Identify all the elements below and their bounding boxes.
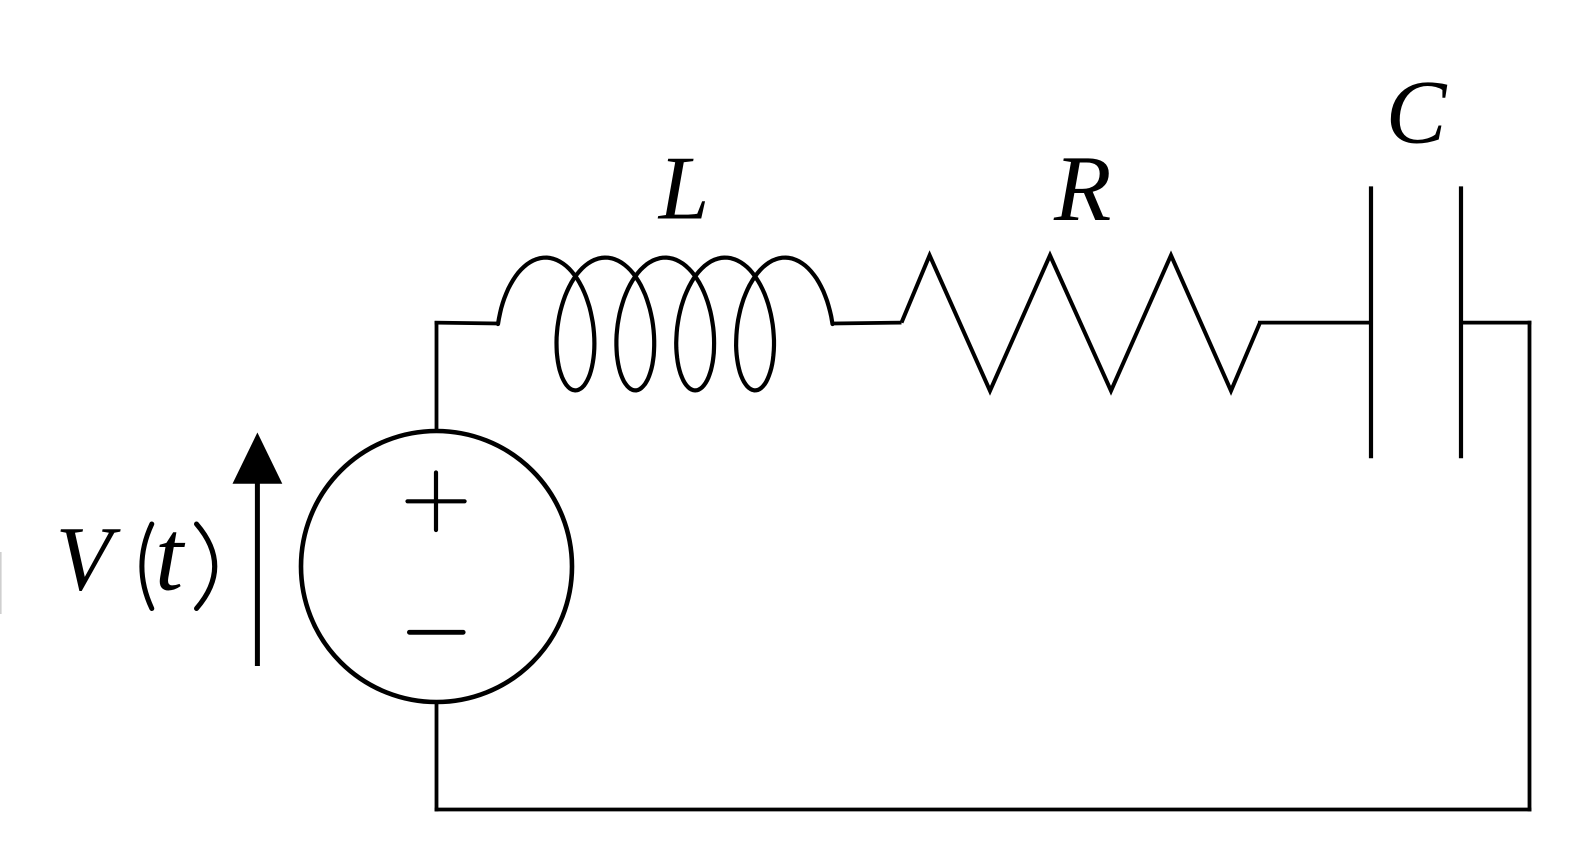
arrow shaft for V(t) direction [255,481,260,666]
wire: inductor to resistor [833,321,902,326]
plus sign inside source [434,473,438,531]
arrow head [233,433,283,484]
source label closing parenthesis [197,524,215,609]
svg-text:V: V [56,507,122,609]
svg-text:R: R [1053,137,1111,241]
svg-text:L: L [657,138,710,239]
faint cropped mark at left edge [0,552,2,614]
svg-text:t: t [155,499,186,612]
wire: bottom-left vertical up to source bottom [435,702,439,811]
resistor R zigzag [902,255,1261,390]
svg-text:C: C [1386,62,1448,163]
wire: resistor to capacitor left plate [1258,321,1371,325]
wire: capacitor right plate to right rail [1461,321,1531,325]
minus sign inside source [409,630,463,635]
wire: top-left vertical from top rail down to source top [435,321,439,431]
wire: right vertical rail [1528,321,1532,812]
wire: top rail stub from corner to inductor [435,321,499,326]
source label opening parenthesis [142,524,152,609]
wire: bottom rail [435,808,1532,812]
voltage source circle [301,431,572,702]
capacitor C left plate [1369,186,1373,458]
inductor L coil [498,258,833,391]
capacitor C right plate [1459,186,1463,458]
